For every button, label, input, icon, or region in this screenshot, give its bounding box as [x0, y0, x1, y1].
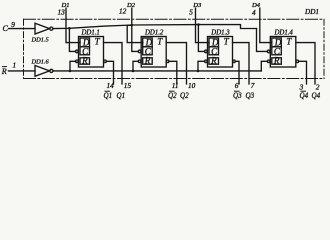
svg-text:DD1: DD1 — [304, 8, 319, 16]
svg-text:5: 5 — [189, 8, 193, 17]
wire Q1-bar output to pin 14 — [106, 61, 113, 84]
svg-text:T: T — [224, 37, 230, 47]
wire C branch to DD1.4 — [257, 29, 268, 52]
label Q3-bar output — [233, 90, 242, 100]
svg-text:DD1.6: DD1.6 — [31, 58, 50, 65]
wire R input pin 1 — [9, 70, 36, 72]
svg-text:R: R — [1, 67, 7, 76]
svg-text:13: 13 — [58, 7, 66, 16]
wire R branch to DD1.2 — [133, 61, 138, 71]
svg-text:12: 12 — [119, 7, 127, 16]
svg-text:R: R — [210, 56, 217, 66]
wire R branch to DD1.3 — [198, 61, 205, 71]
wire C input pin 9 — [9, 28, 36, 30]
label Q2-bar output — [168, 90, 177, 100]
svg-text:1: 1 — [13, 61, 17, 70]
svg-text:DD1.1: DD1.1 — [81, 30, 100, 37]
wire D4 input line pin 4 — [260, 8, 272, 42]
svg-text:T: T — [95, 37, 101, 47]
wire Q3-bar output to pin 6 — [235, 61, 239, 84]
svg-text:C: C — [3, 24, 9, 33]
svg-text:4: 4 — [252, 8, 256, 17]
label Q1-bar output — [104, 90, 113, 100]
wire D2 input line pin 12 — [127, 8, 143, 42]
wire R line (reset net from DD1.6 to all R inputs) — [53, 70, 261, 72]
wire R branch to DD1.4 — [261, 61, 267, 71]
svg-text:14: 14 — [107, 81, 115, 90]
wire Q3 output to pin 7 — [233, 43, 250, 84]
svg-text:6: 6 — [235, 81, 239, 90]
svg-text:DD1.5: DD1.5 — [31, 36, 49, 43]
svg-text:Q1: Q1 — [117, 90, 126, 100]
wire Q2 output to pin 10 — [166, 43, 186, 84]
inverter DD1.5 — [35, 23, 53, 34]
wire Q4 output to pin 2 — [296, 43, 315, 84]
wire C branch to DD1.2 — [132, 25, 139, 51]
flip-flop DD1.2 — [138, 37, 169, 68]
svg-text:10: 10 — [188, 81, 196, 90]
svg-text:7: 7 — [251, 81, 255, 90]
svg-text:15: 15 — [124, 81, 132, 90]
IC boundary dashed box DD1 — [24, 19, 325, 78]
junction — [68, 27, 71, 30]
wire D3 input line pin 5 — [196, 8, 210, 42]
svg-text:Q3: Q3 — [246, 90, 255, 100]
junction — [131, 24, 134, 27]
junction — [197, 23, 200, 26]
junction — [132, 70, 135, 73]
wire Q1 output to pin 15 — [104, 43, 123, 84]
svg-text:DD1.2: DD1.2 — [144, 30, 164, 37]
svg-text:DD1.4: DD1.4 — [274, 30, 294, 37]
wire C line (clock net from DD1.5 to all C inputs) — [53, 25, 257, 29]
svg-text:9: 9 — [11, 20, 15, 29]
wire R branch to DD1.1 — [70, 61, 76, 71]
wire Q2-bar output to pin 11 — [169, 61, 177, 84]
svg-text:D3: D3 — [192, 2, 202, 9]
pin letters DD1.3 — [210, 37, 230, 66]
svg-text:Q4: Q4 — [312, 90, 321, 100]
svg-text:R: R — [144, 56, 151, 66]
svg-text:D2: D2 — [126, 2, 136, 9]
svg-text:DD1.3: DD1.3 — [210, 30, 230, 37]
pin letters DD1.2 — [144, 37, 164, 66]
pin letters DD1.1 — [81, 37, 101, 66]
wire Q4-bar output to pin 3 — [299, 61, 307, 84]
wire C branch to DD1.3 — [198, 25, 204, 52]
flip-flop DD1.4 — [267, 37, 298, 68]
svg-text:T: T — [286, 37, 292, 47]
junction — [69, 70, 72, 73]
label Q4-bar output — [300, 90, 309, 100]
wire C branch to DD1.1 — [69, 28, 75, 51]
svg-text:T: T — [157, 37, 163, 47]
svg-text:11: 11 — [172, 81, 179, 90]
svg-text:R: R — [81, 56, 88, 66]
junction — [197, 70, 200, 73]
svg-text:Q2: Q2 — [180, 90, 189, 100]
inverter DD1.6 — [35, 66, 53, 77]
flip-flop DD1.3 — [205, 37, 236, 68]
pin letters DD1.4 — [273, 37, 293, 66]
wire D1 input line pin 13 — [66, 8, 80, 42]
flip-flop DD1.1 — [76, 37, 107, 68]
svg-text:R: R — [273, 56, 280, 66]
